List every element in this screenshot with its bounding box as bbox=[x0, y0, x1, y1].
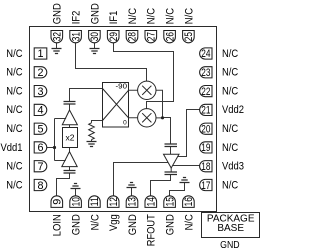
svg-text:N/C: N/C bbox=[6, 67, 22, 79]
svg-text:3: 3 bbox=[37, 86, 43, 98]
svg-text:RFOUT: RFOUT bbox=[146, 214, 158, 246]
svg-text:Vgg: Vgg bbox=[108, 214, 120, 231]
svg-text:GND: GND bbox=[165, 214, 177, 235]
svg-text:20: 20 bbox=[201, 123, 210, 135]
svg-text:N/C: N/C bbox=[6, 123, 22, 135]
svg-text:N/C: N/C bbox=[222, 48, 238, 60]
svg-text:GND: GND bbox=[89, 3, 101, 24]
svg-text:6: 6 bbox=[37, 142, 43, 154]
svg-text:IF2: IF2 bbox=[71, 11, 83, 25]
svg-text:N/C: N/C bbox=[165, 8, 177, 24]
svg-text:14: 14 bbox=[146, 197, 158, 206]
svg-text:N/C: N/C bbox=[6, 85, 22, 97]
svg-text:N/C: N/C bbox=[222, 123, 238, 135]
svg-text:25: 25 bbox=[183, 32, 195, 41]
svg-text:N/C: N/C bbox=[222, 179, 238, 191]
svg-text:BASE: BASE bbox=[217, 223, 244, 234]
svg-text:13: 13 bbox=[127, 197, 139, 206]
svg-text:N/C: N/C bbox=[127, 8, 139, 24]
svg-text:1: 1 bbox=[37, 48, 43, 60]
svg-text:0: 0 bbox=[123, 119, 127, 126]
svg-text:4: 4 bbox=[37, 105, 43, 117]
svg-text:GND: GND bbox=[52, 3, 64, 24]
svg-text:15: 15 bbox=[164, 197, 176, 206]
svg-text:N/C: N/C bbox=[222, 85, 238, 97]
svg-text:11: 11 bbox=[89, 197, 101, 206]
svg-text:30: 30 bbox=[89, 32, 101, 41]
svg-text:23: 23 bbox=[201, 67, 210, 79]
svg-text:28: 28 bbox=[127, 32, 139, 41]
svg-text:21: 21 bbox=[201, 105, 210, 117]
svg-text:N/C: N/C bbox=[183, 214, 195, 230]
svg-text:32: 32 bbox=[52, 32, 64, 41]
svg-text:-90: -90 bbox=[116, 83, 128, 90]
svg-text:LOIN: LOIN bbox=[52, 214, 64, 236]
svg-text:10: 10 bbox=[70, 197, 82, 206]
svg-text:12: 12 bbox=[108, 197, 120, 206]
svg-text:N/C: N/C bbox=[183, 8, 195, 24]
svg-text:16: 16 bbox=[183, 197, 195, 206]
svg-text:N/C: N/C bbox=[6, 161, 22, 173]
svg-text:22: 22 bbox=[201, 86, 210, 98]
svg-text:24: 24 bbox=[201, 48, 210, 60]
svg-text:27: 27 bbox=[146, 32, 158, 41]
svg-text:Vdd2: Vdd2 bbox=[222, 104, 244, 116]
svg-text:18: 18 bbox=[201, 161, 210, 173]
svg-text:9: 9 bbox=[52, 199, 64, 205]
svg-text:N/C: N/C bbox=[6, 179, 22, 191]
svg-text:31: 31 bbox=[70, 32, 82, 41]
svg-text:N/C: N/C bbox=[89, 214, 101, 230]
svg-text:N/C: N/C bbox=[222, 67, 238, 79]
svg-text:N/C: N/C bbox=[146, 8, 158, 24]
svg-text:Vdd1: Vdd1 bbox=[1, 142, 23, 154]
svg-text:19: 19 bbox=[201, 142, 210, 154]
svg-text:7: 7 bbox=[37, 161, 43, 173]
svg-text:IF1: IF1 bbox=[108, 11, 120, 25]
svg-text:8: 8 bbox=[37, 180, 43, 192]
svg-text:2: 2 bbox=[37, 67, 43, 79]
svg-text:29: 29 bbox=[108, 32, 120, 41]
svg-text:N/C: N/C bbox=[222, 142, 238, 154]
svg-text:GND: GND bbox=[71, 214, 83, 235]
svg-text:17: 17 bbox=[201, 180, 210, 192]
svg-text:GND: GND bbox=[220, 239, 240, 250]
svg-text:GND: GND bbox=[127, 214, 139, 235]
svg-text:Vdd3: Vdd3 bbox=[222, 161, 244, 173]
svg-text:26: 26 bbox=[164, 32, 176, 41]
svg-text:N/C: N/C bbox=[6, 104, 22, 116]
svg-text:5: 5 bbox=[37, 123, 43, 135]
svg-text:x2: x2 bbox=[66, 132, 75, 142]
svg-text:N/C: N/C bbox=[6, 48, 22, 60]
